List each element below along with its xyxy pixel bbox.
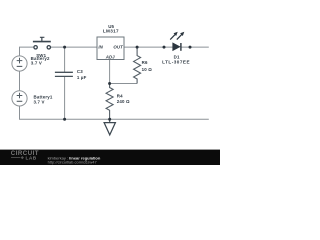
wire Battery1 minus down to bottom rail [19, 106, 21, 119]
label LM317 [103, 29, 119, 34]
label R4 [117, 94, 123, 99]
svg-text:OUT: OUT [113, 45, 123, 50]
LED D1 [170, 32, 184, 51]
label 3.7 V Battery1 [34, 100, 45, 105]
CircuitLab logo [11, 150, 39, 162]
label Battery1 [34, 95, 53, 100]
label D1 [174, 55, 180, 60]
label C3 [77, 69, 83, 74]
switch SW1 pushbutton [33, 37, 51, 49]
label 3.7 V Battery2 [31, 61, 42, 66]
wire LED cathode to right end [181, 46, 209, 48]
svg-text:http://circuitlab.com/c6zw47: http://circuitlab.com/c6zw47 [48, 159, 98, 164]
node junction LED cathode [189, 46, 192, 49]
resistor R6 [134, 47, 141, 83]
pin label IN [98, 45, 103, 50]
label SW1 [36, 53, 46, 58]
svg-text:1 µF: 1 µF [77, 75, 87, 80]
footer attribution text [48, 156, 101, 165]
svg-text:10 Ω: 10 Ω [142, 67, 153, 72]
svg-text:R4: R4 [117, 94, 123, 99]
ground [104, 119, 115, 135]
svg-text:3.7 V: 3.7 V [34, 100, 45, 105]
battery Battery2 [12, 56, 27, 71]
label Battery2 [31, 56, 50, 61]
wire ADJ node to R6 bottom [110, 83, 138, 85]
battery Battery1 [12, 91, 27, 106]
node junction ground rail [108, 118, 111, 121]
svg-text:LM317: LM317 [103, 29, 119, 34]
node junction LED anode [163, 46, 166, 49]
wire C3 top lead [64, 47, 66, 72]
pin label ADJ [105, 55, 115, 60]
wire LM317 ADJ down [109, 60, 111, 84]
footer black bar [0, 150, 220, 165]
op-amp U5 LM317 box [97, 37, 124, 60]
resistor R4 [106, 84, 113, 120]
svg-text:3.7 V: 3.7 V [31, 61, 42, 66]
svg-text:LTL-307EE: LTL-307EE [162, 60, 190, 65]
capacitor C3 [55, 72, 73, 76]
label U5 [108, 24, 114, 29]
label 1 uF [77, 75, 87, 80]
svg-text:R6: R6 [142, 60, 148, 65]
svg-text:240 Ω: 240 Ω [117, 99, 130, 104]
pin label OUT [113, 45, 123, 50]
label LTL-307EE [162, 60, 190, 65]
wire LM317 OUT to LED anode [124, 46, 173, 48]
label 240 Ohm [117, 99, 130, 104]
wire between Battery2 and Battery1 [19, 71, 21, 91]
node junction ADJ-R4 [108, 82, 111, 85]
wire C3 bottom lead to rail [64, 76, 66, 119]
wire top-left from Battery2 plus to switch [20, 47, 34, 56]
node junction C3 top [63, 46, 66, 49]
node junction OUT-R6 [136, 46, 139, 49]
node junction C3 bottom rail [63, 118, 66, 121]
wire bottom ground rail [19, 118, 209, 120]
wire top rail from switch to LM317 IN [51, 46, 97, 48]
label 10 Ohm [142, 67, 153, 72]
label R6 [142, 60, 148, 65]
svg-text:ADJ: ADJ [105, 55, 115, 60]
svg-text:C3: C3 [77, 69, 83, 74]
svg-text:LAB: LAB [26, 156, 37, 162]
